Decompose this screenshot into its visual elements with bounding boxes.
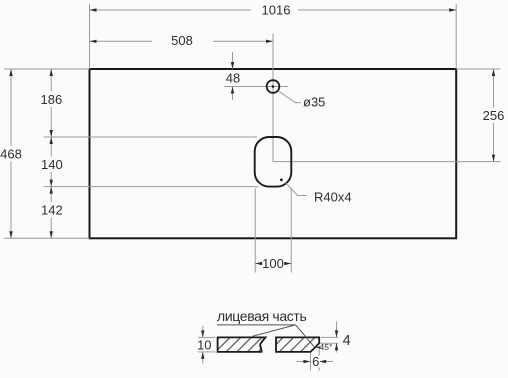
drain hole rounded rectangle R40x4 [255, 137, 292, 187]
svg-text:4: 4 [343, 333, 351, 349]
svg-text:140: 140 [41, 157, 63, 172]
dimension 256 (right) [481, 69, 506, 162]
svg-text:ø35: ø35 [303, 95, 325, 110]
svg-text:48: 48 [226, 71, 240, 86]
dimension 142 (left) [40, 187, 63, 239]
svg-text:лицевая часть: лицевая часть [217, 308, 306, 324]
svg-text:100: 100 [262, 256, 284, 271]
dimension 4 (chamfer height) [320, 322, 351, 353]
countertop outline [90, 69, 457, 238]
svg-text:508: 508 [171, 33, 193, 48]
extension line top-left vertical (x=89.5) [89, 4, 91, 69]
extension line left top (y=69) [4, 68, 90, 70]
dimension 508 (top) [90, 33, 274, 48]
dimension 1016 (top) [90, 3, 457, 18]
horizontal center line through oval [273, 161, 501, 163]
leader to right slab [296, 325, 315, 347]
horizontal center line through circle [224, 86, 288, 88]
svg-text:6: 6 [312, 354, 319, 369]
section view: left slab (hatched) [218, 337, 266, 352]
extension line 100 right (x=291.2) [290, 189, 292, 273]
svg-text:186: 186 [41, 92, 63, 107]
vertical center line [272, 34, 274, 162]
label лицевая часть [217, 308, 306, 324]
svg-text:142: 142 [41, 203, 63, 218]
section view: right slab with 45° chamfer (hatched) [276, 337, 319, 352]
extension line left bottom (y=238.3) [4, 237, 90, 239]
svg-text:R40x4: R40x4 [314, 189, 352, 204]
dimension 100 (below drain hole) [255, 256, 291, 271]
dimension 6 (chamfer width) [297, 349, 334, 371]
leader line ø35 [278, 91, 301, 103]
extension line oval top (y=137) [44, 136, 258, 138]
dimension 10 (slab thickness) [196, 326, 216, 364]
dimension 48 (circle offset) [226, 52, 240, 100]
svg-text:256: 256 [483, 108, 505, 123]
dimension 140 (left) [40, 137, 63, 187]
svg-text:1016: 1016 [262, 3, 291, 18]
extension line right top (y=69) [456, 68, 500, 70]
label R40x4 [314, 189, 352, 204]
underline for лицевая часть [217, 324, 296, 326]
dimension 468 (far left) [0, 69, 22, 238]
svg-text:10: 10 [197, 338, 211, 353]
label 45° with arrow [315, 342, 332, 352]
extension line top-right vertical (x=456.2) [455, 4, 457, 69]
label ø35 [303, 95, 325, 110]
extension line 100 left (x=255.2) [254, 189, 256, 273]
svg-text:468: 468 [0, 146, 22, 161]
leader line R40x4 [285, 182, 307, 196]
leader to left slab [252, 325, 295, 336]
faucet hole circle ø35 [267, 80, 280, 93]
extension line oval bottom (y=186.6) [44, 186, 259, 188]
svg-text:45°: 45° [320, 342, 333, 352]
dimension 186 (left) [40, 69, 63, 137]
